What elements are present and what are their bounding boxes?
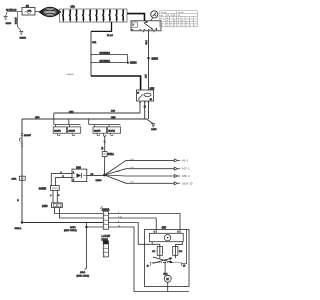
svg-text:11G/46: 11G/46 — [108, 131, 115, 133]
svg-text:5: 5 — [178, 232, 179, 234]
svg-text:23/74: 23/74 — [70, 227, 76, 229]
svg-text:1.4G: 1.4G — [130, 159, 134, 161]
svg-text:x: x — [174, 25, 175, 27]
svg-text:B/66: B/66 — [116, 171, 120, 173]
svg-text:1.4G: 1.4G — [130, 182, 134, 184]
svg-text:1.4G: 1.4G — [130, 167, 134, 169]
svg-text:0.75: 0.75 — [146, 75, 148, 79]
svg-text:0.5: 0.5 — [91, 174, 94, 176]
svg-text:15A: 15A — [71, 6, 76, 9]
svg-text:x: x — [194, 25, 195, 27]
svg-text:x: x — [190, 25, 191, 27]
svg-text:11G/45: 11G/45 — [54, 131, 61, 133]
svg-text:30: 30 — [167, 15, 169, 17]
svg-text:(RHD ONLY): (RHD ONLY) — [77, 275, 90, 277]
svg-text:31/36: 31/36 — [6, 23, 12, 25]
svg-text:(RHD ONLY): (RHD ONLY) — [64, 230, 77, 232]
svg-text:5: 5 — [58, 195, 59, 197]
svg-text:10A: 10A — [28, 10, 32, 13]
svg-text:31/104: 31/104 — [20, 38, 27, 40]
svg-text:2421: 2421 — [12, 179, 18, 181]
svg-text:x: x — [171, 23, 172, 25]
svg-text:x: x — [186, 25, 187, 27]
svg-text:2: 2 — [73, 180, 74, 182]
svg-text:x: x — [167, 25, 168, 27]
svg-text:30: 30 — [146, 22, 148, 24]
svg-text:1/55: 1/55 — [150, 87, 155, 90]
svg-text:8/41A: 8/41A — [108, 153, 114, 156]
svg-text:15: 15 — [171, 15, 173, 17]
svg-text:S/C50519: S/C50519 — [100, 53, 111, 55]
svg-text:BN 0.75: BN 0.75 — [16, 18, 18, 25]
svg-text:x: x — [178, 25, 179, 27]
svg-text:x: x — [167, 23, 168, 25]
svg-text:11G/46: 11G/46 — [69, 131, 76, 133]
svg-text:5: 5 — [63, 176, 64, 178]
svg-text:8/29: 8/29 — [76, 168, 81, 170]
svg-text:23/26: 23/26 — [152, 56, 159, 60]
svg-text:2459: 2459 — [42, 205, 48, 208]
svg-text:4: 4 — [50, 195, 51, 197]
svg-text:2/2-B: 2/2-B — [80, 272, 86, 274]
svg-text:BL 2.5: BL 2.5 — [107, 35, 114, 37]
svg-text:4/57 -2: 4/57 -2 — [182, 168, 190, 171]
svg-text:S/C50064: S/C50064 — [100, 61, 111, 63]
svg-text:key: key — [161, 15, 164, 17]
svg-text:11G/45: 11G/45 — [94, 131, 101, 133]
svg-text:C/104: C/104 — [96, 180, 103, 182]
svg-text:CC: CC — [152, 251, 156, 253]
svg-text:Sw pos: Sw pos — [161, 12, 167, 14]
svg-text:Circuits: Circuits — [178, 11, 184, 14]
svg-text:6: 6 — [154, 232, 155, 234]
svg-text:50: 50 — [178, 15, 180, 17]
svg-text:x: x — [171, 25, 172, 27]
svg-text:4/57: 4/57 — [162, 226, 167, 229]
svg-text:18/1A -1D: 18/1A -1D — [182, 182, 193, 185]
svg-text:x: x — [178, 23, 179, 25]
svg-text:4/8 -1: 4/8 -1 — [182, 159, 189, 162]
svg-text:x: x — [186, 23, 187, 25]
svg-text:BO: BO — [179, 251, 182, 253]
svg-text:31 BN/R 2.5: 31 BN/R 2.5 — [6, 10, 16, 12]
svg-text:4/58 -3: 4/58 -3 — [182, 175, 190, 178]
svg-text:GR 1: GR 1 — [146, 40, 148, 44]
svg-text:4: 4 — [61, 172, 62, 174]
svg-text:30/H-2: 30/H-2 — [15, 228, 22, 230]
svg-text:11G/67: 11G/67 — [24, 135, 32, 137]
svg-text:1: 1 — [73, 172, 74, 174]
svg-text:48: 48 — [147, 265, 149, 267]
svg-text:0.5: 0.5 — [102, 147, 104, 150]
svg-text:84/36B: 84/36B — [39, 188, 47, 190]
svg-text:31/53: 31/53 — [151, 129, 157, 131]
svg-text:85: 85 — [150, 99, 152, 101]
svg-text:23/24: 23/24 — [130, 61, 137, 65]
svg-text:x: x — [182, 23, 183, 25]
svg-text:x: x — [174, 23, 175, 25]
svg-text:x: x — [182, 25, 183, 27]
svg-text:30: 30 — [137, 93, 139, 95]
svg-text:L.COUP: L.COUP — [102, 236, 111, 238]
